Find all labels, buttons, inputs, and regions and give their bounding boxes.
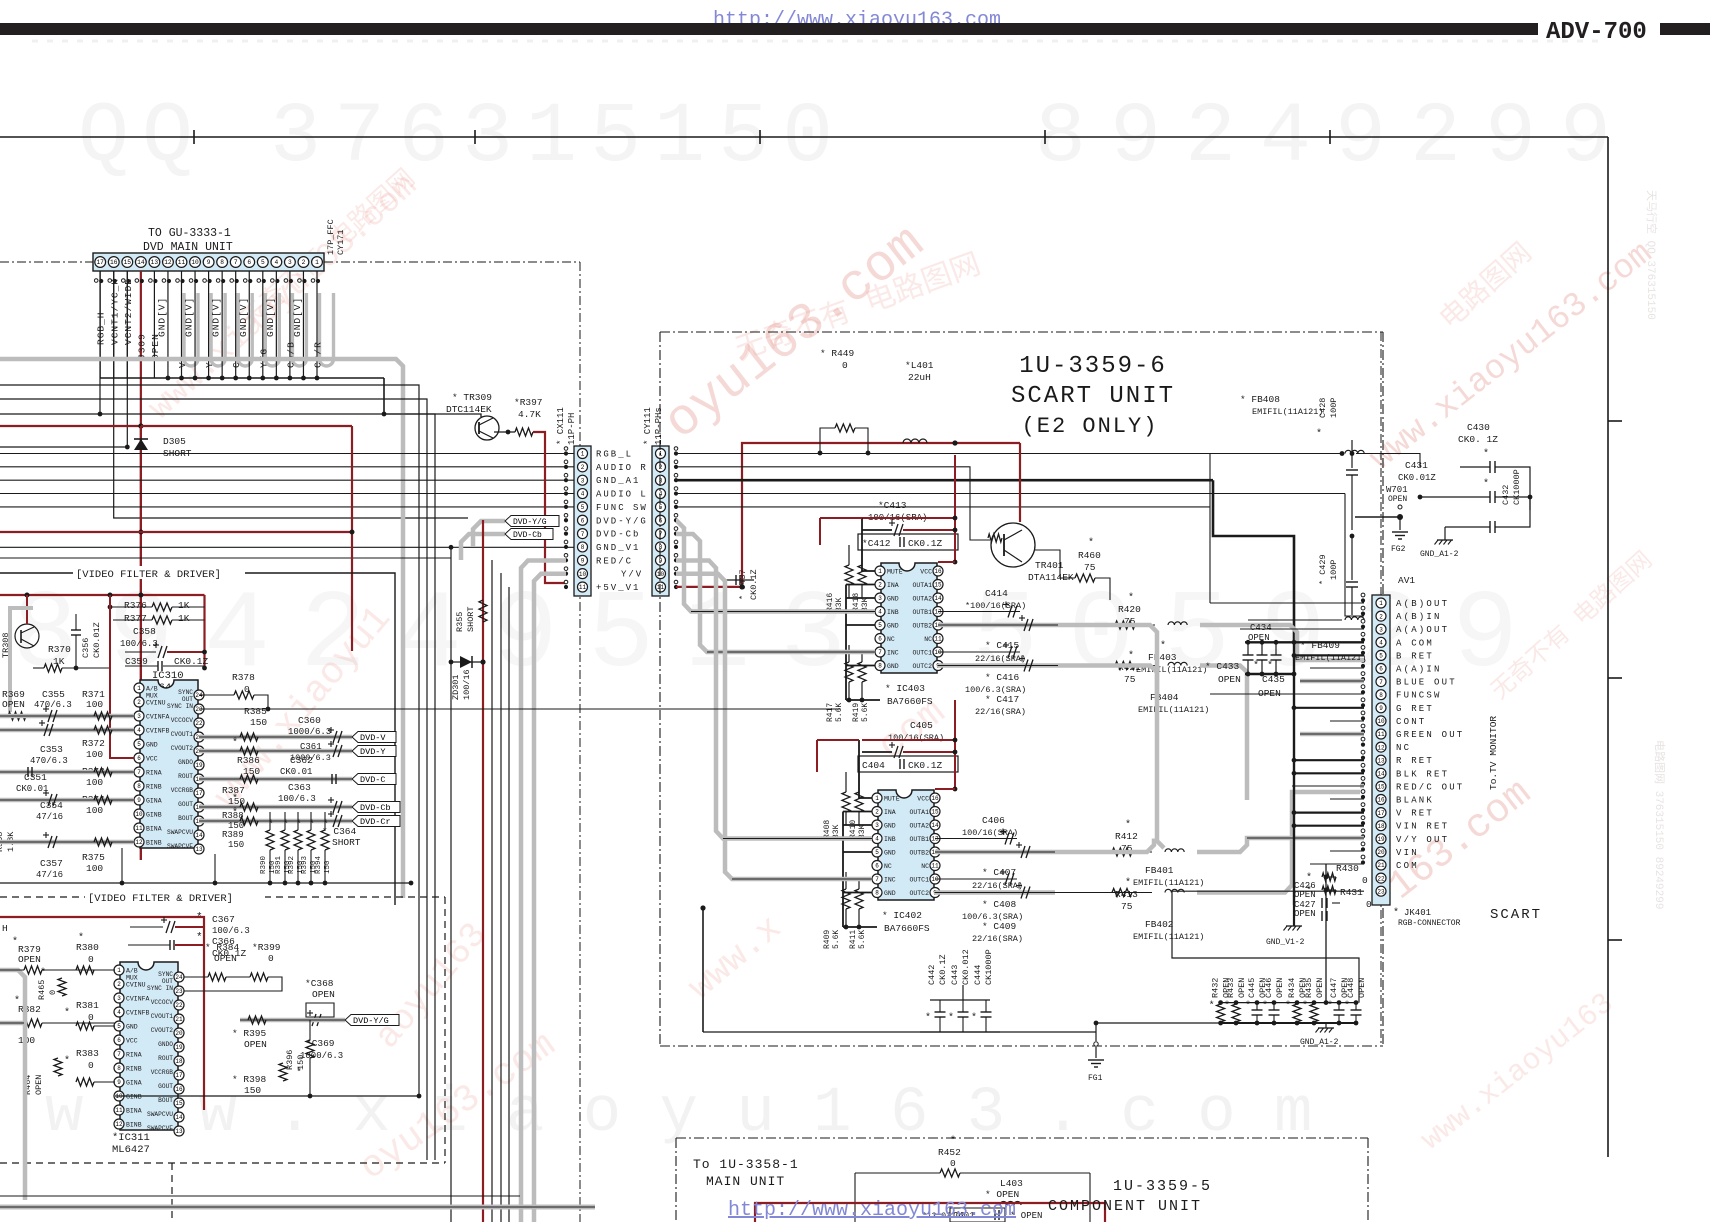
svg-text:C447: C447: [1329, 978, 1339, 998]
svg-text:C361: C361: [300, 742, 322, 752]
svg-text:R394: R394: [315, 855, 323, 874]
svg-text:CVINFA: CVINFA: [126, 996, 150, 1003]
wire: thick gray from left y359 turning down x403: [0, 359, 403, 898]
transistor TR309 DTC114EK: [475, 416, 499, 440]
svg-text:1: 1: [1379, 600, 1383, 607]
svg-text:1K: 1K: [178, 600, 190, 611]
svg-text:A(A)OUT: A(A)OUT: [1396, 625, 1449, 635]
bus y883: [0, 882, 411, 884]
svg-text:JK401: JK401: [1404, 908, 1431, 918]
svg-text:OUTC2: OUTC2: [912, 663, 932, 670]
svg-text:DVD-C: DVD-C: [360, 775, 386, 785]
svg-text:100: 100: [86, 863, 103, 874]
svg-text:DVD-Cb: DVD-Cb: [513, 531, 542, 540]
svg-text:1K: 1K: [53, 656, 65, 667]
capacitor C412 CK0.1Z: [858, 534, 958, 550]
svg-text:* C437: * C437: [738, 569, 748, 600]
svg-text:RINB: RINB: [146, 784, 162, 791]
svg-text:20: 20: [175, 1030, 183, 1037]
svg-text:*: *: [950, 1135, 956, 1147]
svg-text:100/6.3: 100/6.3: [212, 926, 250, 936]
svg-text:GND_V1-2: GND_V1-2: [1266, 938, 1305, 947]
svg-text:GND: GND: [126, 1024, 138, 1031]
svg-text:OPEN: OPEN: [34, 1075, 44, 1095]
resistor R392 150: [294, 830, 302, 850]
svg-text:SYNC: SYNC: [158, 971, 173, 978]
svg-text:4: 4: [274, 259, 278, 266]
svg-text:19: 19: [175, 1044, 183, 1051]
svg-text:14: 14: [137, 259, 145, 266]
header black bar: [0, 23, 1538, 35]
svg-text:9: 9: [137, 797, 141, 804]
svg-text:9: 9: [581, 557, 585, 564]
svg-text:23: 23: [1377, 888, 1385, 895]
svg-text:C448: C448: [1346, 978, 1356, 998]
svg-text:*: *: [1088, 537, 1094, 549]
svg-text:GND_A1-2: GND_A1-2: [1420, 550, 1459, 559]
svg-text:14: 14: [175, 1114, 183, 1121]
svg-text:RINA: RINA: [126, 1052, 142, 1059]
svg-text:R420: R420: [1118, 604, 1141, 615]
op-amp IC403 BA7660FS: [881, 563, 937, 673]
svg-text:[VIDEO FILTER & DRIVER]: [VIDEO FILTER & DRIVER]: [76, 569, 221, 581]
capacitors C406 C407: [935, 838, 1017, 840]
svg-text:21: 21: [175, 1016, 183, 1023]
svg-text:11P-PH: 11P-PH: [567, 413, 577, 445]
svg-text:10: 10: [135, 811, 143, 818]
svg-text:MUTE: MUTE: [884, 796, 900, 803]
svg-text:CK0.1Z: CK0.1Z: [938, 954, 948, 985]
svg-text:16: 16: [1377, 797, 1385, 804]
svg-text:RINA: RINA: [146, 770, 162, 777]
svg-text:1: 1: [137, 685, 141, 692]
svg-text:R419: R419: [852, 703, 861, 722]
input row wire y772: [0, 770, 134, 775]
dash-dot centerline through CY171 and CX111: [0, 261, 93, 263]
svg-text:17: 17: [96, 259, 104, 266]
ground GND_A1-2: [1437, 539, 1453, 541]
svg-text:16: 16: [110, 259, 118, 266]
svg-text:CVOUT2: CVOUT2: [171, 745, 194, 752]
svg-text:DVD-Y/G: DVD-Y/G: [353, 1016, 389, 1026]
svg-text:22: 22: [195, 720, 203, 727]
svg-text:7: 7: [137, 769, 141, 776]
svg-text:C359: C359: [125, 656, 148, 667]
svg-text:OPEN: OPEN: [1275, 978, 1285, 998]
svg-text:CK0.012: CK0.012: [961, 949, 971, 985]
svg-text:BINB: BINB: [126, 1122, 142, 1129]
svg-text:3: 3: [117, 995, 121, 1002]
svg-text:9: 9: [117, 1079, 121, 1086]
svg-text:CY171: CY171: [336, 229, 346, 255]
capacitors C408 C409: [935, 878, 1017, 880]
svg-text:*: *: [196, 932, 203, 944]
svg-text:C434: C434: [1250, 623, 1272, 633]
svg-text:100/16: 100/16: [462, 669, 472, 700]
svg-text:8: 8: [878, 663, 882, 670]
svg-text:0: 0: [48, 990, 58, 995]
svg-text:SWAPCVF: SWAPCVF: [147, 1125, 173, 1132]
svg-text:OPEN: OPEN: [312, 989, 335, 1000]
svg-text:C430: C430: [1467, 422, 1490, 433]
svg-text:R411: R411: [849, 930, 858, 949]
transistor TR308: [15, 624, 39, 648]
svg-text:* R395: * R395: [232, 1028, 267, 1039]
svg-text:C406: C406: [982, 815, 1005, 826]
svg-text:7: 7: [117, 1051, 121, 1058]
svg-text:0: 0: [950, 1158, 956, 1169]
svg-text:*: *: [1128, 592, 1134, 604]
svg-text:GND[V]: GND[V]: [238, 297, 249, 337]
svg-text:+5V_V1: +5V_V1: [596, 583, 640, 593]
DVD-V output row: [199, 735, 352, 740]
SCART unit dash-dot box 1U-3359-6: [660, 331, 1383, 333]
svg-text:INA: INA: [884, 809, 896, 816]
svg-text:C414: C414: [985, 588, 1008, 599]
svg-text:CK0.1Z: CK0.1Z: [908, 538, 943, 549]
svg-text:*R399: *R399: [252, 942, 281, 953]
svg-text:4: 4: [875, 836, 879, 843]
red wires to IC403 VCC: [938, 561, 955, 563]
input row wire y800: [0, 798, 134, 803]
svg-text:12: 12: [164, 259, 172, 266]
svg-text:OUTC2: OUTC2: [909, 890, 929, 897]
svg-text:SCART UNIT: SCART UNIT: [1011, 383, 1175, 410]
svg-text:*: *: [948, 1012, 954, 1024]
svg-text:0: 0: [244, 684, 250, 695]
svg-text:100/16(SRA): 100/16(SRA): [888, 733, 944, 743]
svg-text:* R398: * R398: [232, 1074, 267, 1085]
svg-text:1: 1: [117, 967, 121, 974]
svg-text:*: *: [309, 819, 315, 831]
svg-text:R409: R409: [823, 930, 832, 949]
svg-text:VCNT1/YC_H: VCNT1/YC_H: [109, 278, 120, 345]
svg-text:R416: R416: [826, 593, 835, 612]
wire to FG1 ground: [920, 1031, 1096, 1033]
svg-text:23: 23: [175, 988, 183, 995]
svg-text:12: 12: [135, 839, 143, 846]
svg-text:2: 2: [117, 981, 121, 988]
svg-text:*: *: [323, 819, 329, 831]
svg-text:CVINU: CVINU: [146, 700, 166, 707]
svg-text:VCNT2/WIDE: VCNT2/WIDE: [123, 278, 134, 345]
svg-text:NC: NC: [921, 863, 929, 870]
svg-text:BOUT: BOUT: [158, 1097, 173, 1104]
svg-text:BINA: BINA: [146, 826, 162, 833]
wire: top horizontal bus y378: [100, 377, 384, 379]
svg-text:R381: R381: [76, 1000, 99, 1011]
svg-text:SHORT: SHORT: [466, 606, 476, 632]
svg-text:11: 11: [931, 863, 939, 870]
svg-text:C358: C358: [133, 626, 156, 637]
svg-text:0: 0: [842, 360, 848, 371]
svg-text:* C429: * C429: [1318, 554, 1328, 585]
svg-text:CVINFB: CVINFB: [126, 1010, 150, 1017]
svg-text:B RET: B RET: [1396, 651, 1434, 661]
svg-text:*: *: [283, 819, 289, 831]
svg-text:C356: C356: [81, 638, 91, 658]
svg-text:R431: R431: [1340, 887, 1363, 898]
resistor R391 150: [281, 830, 289, 850]
svg-text:*: *: [232, 793, 238, 805]
IC402 VCC red: [935, 788, 955, 790]
svg-text:A(B)IN: A(B)IN: [1396, 612, 1442, 622]
wires: left horizontals to CX111 pins 1-5: [0, 453, 574, 455]
svg-text:11: 11: [657, 584, 665, 591]
svg-text:5.6K: 5.6K: [861, 703, 870, 722]
lower bus: [115, 1095, 419, 1097]
ferrite FB404 EMIFIL(11A121): [1168, 662, 1187, 665]
svg-text:A(B)OUT: A(B)OUT: [1396, 599, 1449, 609]
svg-text:*: *: [268, 819, 274, 831]
svg-text:* C433: * C433: [1205, 661, 1240, 672]
svg-text:CK0.01Z: CK0.01Z: [1398, 473, 1436, 483]
svg-text:C443: C443: [950, 965, 960, 985]
svg-text:R382: R382: [18, 1004, 41, 1015]
svg-text:1: 1: [875, 795, 879, 802]
svg-text:100P: 100P: [1329, 398, 1339, 418]
svg-text:COMPONENT UNIT: COMPONENT UNIT: [1048, 1198, 1202, 1215]
input row wire y730: [0, 728, 134, 733]
svg-text:BLK RET: BLK RET: [1396, 769, 1449, 779]
svg-text:C446: C446: [1264, 978, 1274, 998]
svg-text:* TR309: * TR309: [452, 392, 492, 403]
svg-text:OPEN: OPEN: [214, 953, 237, 964]
svg-text:CVINU: CVINU: [126, 982, 146, 989]
svg-text:16: 16: [931, 795, 939, 802]
svg-text:CVOUT1: CVOUT1: [151, 1013, 174, 1020]
svg-text:22/16(SRA): 22/16(SRA): [975, 654, 1026, 664]
svg-text:NC: NC: [887, 636, 895, 643]
svg-text:OUTA1: OUTA1: [909, 809, 929, 816]
svg-text:47/16: 47/16: [36, 870, 63, 880]
svg-text:OUTA1: OUTA1: [912, 582, 932, 589]
resistor R393 150: [307, 830, 315, 850]
svg-text:7: 7: [659, 531, 663, 538]
svg-text:A(A)IN: A(A)IN: [1396, 665, 1442, 675]
svg-text:* CX111: * CX111: [556, 407, 566, 445]
svg-text:*: *: [40, 967, 46, 979]
svg-text:R389: R389: [222, 830, 244, 840]
svg-text:*: *: [296, 819, 302, 831]
svg-text:3: 3: [875, 822, 879, 829]
bottom dash-dot box 1U-3359-5: [676, 1137, 1368, 1139]
svg-text:*: *: [296, 1067, 302, 1079]
connector CY171 pin wires: [99, 271, 101, 378]
svg-text:* IC403: * IC403: [885, 683, 925, 694]
svg-text:15: 15: [934, 582, 942, 589]
wire: red y532 from left: [0, 532, 352, 651]
svg-text:EMIFIL(11A121): EMIFIL(11A121): [1252, 407, 1323, 417]
svg-text:GND_A1-2: GND_A1-2: [1300, 1038, 1339, 1047]
wire pin23 to bottom bank: [1172, 891, 1364, 1002]
wires to IC311 pins: [42, 969, 115, 971]
svg-text:* C416: * C416: [985, 672, 1020, 683]
svg-text:OUTB2: OUTB2: [912, 623, 932, 630]
svg-text:0: 0: [88, 954, 94, 965]
capacitor C432 CK1000P: [1489, 521, 1491, 533]
svg-text:R418: R418: [852, 593, 861, 612]
svg-text:5.6K: 5.6K: [858, 930, 867, 949]
svg-text:13: 13: [151, 259, 159, 266]
svg-text:DVD-Cb: DVD-Cb: [596, 530, 640, 540]
svg-text:0: 0: [1362, 875, 1368, 886]
svg-text:ROUT: ROUT: [178, 773, 193, 780]
svg-text:16: 16: [175, 1086, 183, 1093]
svg-text:2: 2: [1379, 613, 1383, 620]
diode D305 SHORT: [140, 426, 142, 860]
svg-text:13: 13: [175, 1128, 183, 1135]
thick gray runs to SCART right: [1058, 625, 1157, 700]
sheet border right line: [1607, 137, 1609, 1157]
svg-text:19: 19: [1377, 836, 1385, 843]
svg-text:V/Y OUT: V/Y OUT: [1396, 835, 1449, 845]
svg-text:7: 7: [581, 531, 585, 538]
DVD-Y/G tag lower: [240, 1018, 345, 1023]
svg-text:3: 3: [288, 259, 292, 266]
svg-text:22: 22: [1377, 875, 1385, 882]
svg-text:10: 10: [931, 876, 939, 883]
svg-text:4: 4: [581, 491, 585, 498]
input row wire y716: [0, 714, 134, 719]
svg-text:1000/6.3: 1000/6.3: [288, 727, 331, 737]
DVD-C output row: [199, 777, 352, 782]
svg-text:D305: D305: [163, 436, 186, 447]
svg-text:DVD-V: DVD-V: [360, 733, 386, 743]
svg-text:5: 5: [261, 259, 265, 266]
ground GND_A1-2 bottom: [1325, 1023, 1327, 1028]
svg-text:RGB_H: RGB_H: [96, 311, 107, 345]
svg-text:2: 2: [302, 259, 306, 266]
svg-text:23: 23: [195, 706, 203, 713]
svg-text:6: 6: [247, 259, 251, 266]
svg-text:12: 12: [1377, 744, 1385, 751]
svg-text:OPEN: OPEN: [1315, 978, 1325, 998]
svg-text:OUTC1: OUTC1: [912, 650, 932, 657]
svg-text:11P-PHs: 11P-PHs: [654, 407, 664, 445]
svg-text:*: *: [232, 737, 238, 749]
ground GND_V1-2: [1286, 925, 1302, 927]
svg-text:2: 2: [878, 582, 882, 589]
svg-text:470/6.3: 470/6.3: [30, 756, 68, 766]
svg-text:100/6.3: 100/6.3: [278, 794, 316, 804]
svg-text:GREEN OUT: GREEN OUT: [1396, 730, 1464, 740]
red power rail upper section: [0, 594, 205, 596]
svg-text:SWAPCVU: SWAPCVU: [147, 1111, 173, 1118]
svg-text:8: 8: [117, 1065, 121, 1072]
svg-text:* FB408: * FB408: [1240, 394, 1280, 405]
svg-text:*: *: [1483, 448, 1489, 460]
red box bottom: [755, 1203, 1105, 1222]
svg-text:7: 7: [878, 649, 882, 656]
svg-text:19: 19: [195, 762, 203, 769]
svg-text:R378: R378: [232, 672, 255, 683]
svg-text:100: 100: [86, 699, 103, 710]
svg-text:C360: C360: [298, 715, 321, 726]
svg-text:C435: C435: [1262, 674, 1285, 685]
RET bus vertical: [1293, 642, 1295, 905]
svg-text:RED/C: RED/C: [596, 556, 633, 566]
svg-text:75: 75: [1124, 674, 1136, 685]
svg-text:6: 6: [875, 863, 879, 870]
svg-text:15: 15: [1377, 784, 1385, 791]
svg-text:9: 9: [1379, 705, 1383, 712]
svg-text:4: 4: [878, 609, 882, 616]
svg-text:*: *: [1267, 660, 1273, 672]
svg-text:150: 150: [324, 860, 332, 874]
svg-text:OUTB2: OUTB2: [909, 850, 929, 857]
svg-text:C404: C404: [862, 760, 885, 771]
svg-text:GND: GND: [884, 890, 896, 897]
svg-text:ROUT: ROUT: [158, 1055, 173, 1062]
resistor R394 150: [321, 830, 329, 850]
svg-text:CK0.01Z: CK0.01Z: [92, 622, 102, 658]
svg-text:OUTB1: OUTB1: [909, 836, 929, 843]
svg-text:COM: COM: [1396, 861, 1419, 871]
capacitor C437 CK0.1Z: [726, 579, 754, 581]
svg-text:R408: R408: [823, 820, 832, 839]
red drop to TR401: [1019, 443, 1021, 522]
wire: GND_V1 line to CX111 pin8: [0, 546, 574, 548]
svg-text:A COM: A COM: [1396, 638, 1434, 648]
svg-text:电路图网 376315150 89249299: 电路图网 376315150 89249299: [1652, 740, 1666, 909]
svg-text:C405: C405: [910, 720, 933, 731]
svg-text:* C417: * C417: [985, 694, 1019, 705]
svg-text:* C407: * C407: [982, 867, 1016, 878]
svg-text:R380: R380: [76, 942, 99, 953]
svg-text:R393: R393: [301, 855, 309, 874]
svg-text:DVD-Y: DVD-Y: [360, 747, 386, 757]
svg-text:GND[V]: GND[V]: [265, 297, 276, 337]
svg-text:13: 13: [934, 609, 942, 616]
svg-text:6: 6: [1379, 666, 1383, 673]
svg-text:INB: INB: [884, 836, 896, 843]
svg-text:* R384: * R384: [205, 942, 240, 953]
svg-text:R410: R410: [849, 820, 858, 839]
svg-text:*C368: *C368: [305, 978, 334, 989]
capacitor C404 CK0.1Z: [858, 756, 958, 772]
svg-text:天马行空 QQ 376315150: 天马行空 QQ 376315150: [1644, 190, 1659, 320]
svg-text:DVD-Cb: DVD-Cb: [360, 803, 391, 813]
IC403 left wires: [862, 518, 875, 571]
svg-text:NC: NC: [1396, 743, 1411, 753]
svg-text:24: 24: [195, 692, 203, 699]
svg-text:OPEN: OPEN: [2, 699, 25, 710]
svg-text:Y: Y: [204, 361, 215, 368]
CX111 pin stub dots: [564, 447, 568, 451]
svg-text:6: 6: [137, 755, 141, 762]
svg-text:TO GU-3333-1: TO GU-3333-1: [148, 227, 231, 240]
svg-text:OUT: OUT: [182, 696, 193, 703]
svg-text:R433: R433: [1226, 978, 1236, 998]
svg-text:*: *: [1125, 819, 1131, 831]
svg-text:FB403: FB403: [1148, 652, 1177, 663]
svg-text:15: 15: [124, 259, 132, 266]
svg-text:1: 1: [659, 451, 663, 458]
svg-text:A/B: A/B: [126, 968, 138, 975]
svg-text:OPEN: OPEN: [1237, 978, 1247, 998]
wires: left horizontals to vertical drops: [0, 385, 419, 1096]
svg-text:4.7K: 4.7K: [518, 409, 541, 420]
svg-text:R417: R417: [826, 703, 835, 722]
svg-text:BINA: BINA: [126, 1108, 142, 1115]
svg-text:BOUT: BOUT: [178, 815, 193, 822]
svg-text:OUT: OUT: [162, 978, 173, 985]
svg-text:FB402: FB402: [1145, 919, 1174, 930]
svg-text:*: *: [1209, 1000, 1215, 1012]
svg-text:5.6K: 5.6K: [835, 703, 844, 722]
svg-text:VCCRGB: VCCRGB: [151, 1069, 174, 1076]
